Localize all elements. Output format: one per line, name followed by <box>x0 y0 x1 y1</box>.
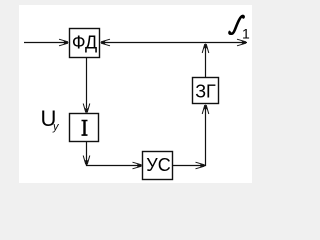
arrow up at junction <box>202 43 209 53</box>
block FD (phase detector) <box>70 29 100 58</box>
label f1 <box>229 15 250 41</box>
svg-text:ЗГ: ЗГ <box>195 82 216 102</box>
arrow down at elbow <box>83 156 90 166</box>
block ZG (generator) <box>193 78 219 104</box>
label Uy <box>41 106 61 133</box>
svg-text:1: 1 <box>242 26 250 42</box>
wire: FD down to I <box>86 58 88 109</box>
wire: main horizontal line to output f1 <box>104 42 247 44</box>
arrow into FD left <box>59 39 69 46</box>
arrow right at elbow <box>196 162 206 169</box>
wire: US right and up to ZG <box>173 109 206 166</box>
arrow into FD right <box>100 39 110 46</box>
svg-text:УС: УС <box>146 155 170 175</box>
block US (amplifier) <box>143 152 173 180</box>
arrow output right <box>237 39 247 46</box>
arrow down into I <box>83 104 90 114</box>
wire: I down and right to US <box>87 142 139 166</box>
block I (integrator) <box>70 114 99 142</box>
arrow into US left <box>133 162 143 169</box>
svg-text:ФД: ФД <box>72 33 97 53</box>
arrow up into ZG bottom <box>202 104 209 114</box>
wire: left input to FD <box>24 42 64 44</box>
wire: ZG up to main line (node junction) <box>205 47 207 78</box>
panel background <box>19 5 252 183</box>
